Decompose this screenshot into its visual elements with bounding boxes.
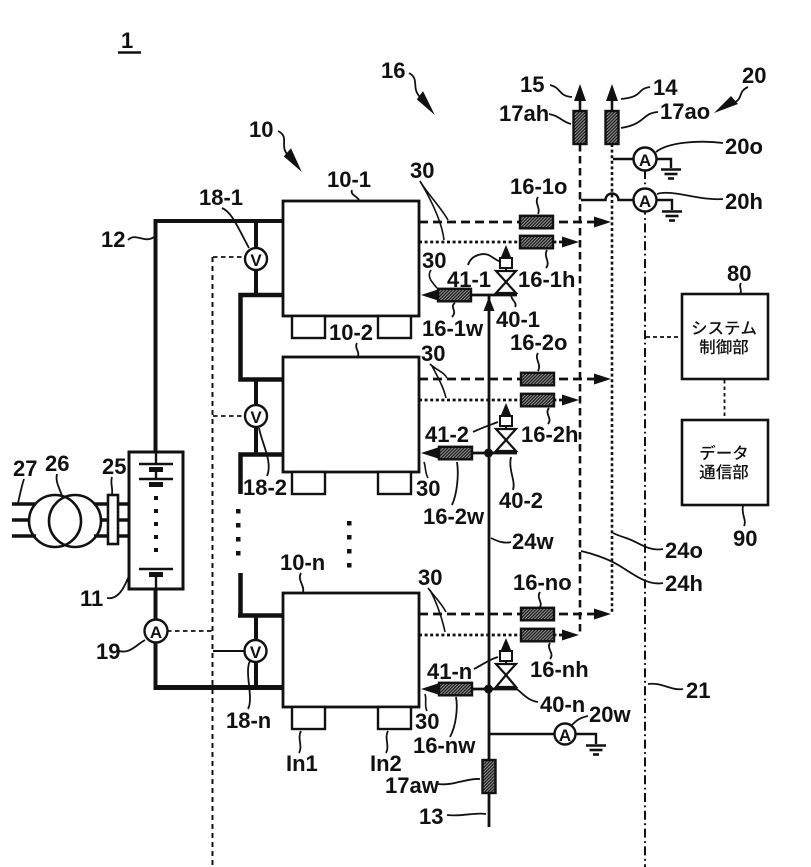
- wire bottom bus to stack n: [154, 685, 284, 690]
- wire transformer to terminal block 25: [94, 504, 108, 536]
- node junction 40-n on 24w: [484, 685, 493, 694]
- system controller box 80: [682, 294, 768, 379]
- svg-text:16-1w: 16-1w: [422, 316, 484, 341]
- svg-text:41-2: 41-2: [425, 422, 469, 447]
- sensor 30 on w-n line (16-nw): [439, 683, 472, 696]
- wire hydrogen line stack2 (16-2h branch): [419, 399, 565, 402]
- wire ammeter 20h tap with hop over 24o: [581, 194, 672, 211]
- wire ammeter 20o tap: [613, 159, 671, 168]
- component 17ah on hydrogen outlet: [574, 111, 587, 144]
- svg-text:30: 30: [415, 709, 439, 734]
- wire sense dashed 18-2: [213, 415, 245, 417]
- voltmeter 18-n: [245, 640, 267, 662]
- svg-text:14: 14: [653, 75, 678, 100]
- svg-text:19: 19: [96, 639, 120, 664]
- wire water line stack2 (16-2w branch): [426, 452, 517, 455]
- svg-text:20: 20: [742, 63, 766, 88]
- arrow h-n into 24h: [562, 630, 579, 641]
- svg-text:1: 1: [121, 28, 133, 53]
- wire sense line vertical (dashed, to controller): [212, 257, 214, 867]
- svg-text:10: 10: [249, 117, 273, 142]
- wire series link stack1 to stack2: [241, 295, 284, 380]
- ground for 20h: [662, 212, 682, 221]
- text system control box 80 line2: [700, 339, 748, 354]
- svg-text:In2: In2: [370, 751, 402, 776]
- svg-text:20o: 20o: [725, 134, 763, 159]
- wire oxygen line stack2 (16-2o branch): [419, 378, 597, 381]
- svg-text:A: A: [639, 192, 651, 211]
- svg-text:V: V: [250, 643, 262, 662]
- svg-text:17ao: 17ao: [660, 99, 710, 124]
- wire signal line 21 to system controller 80: [646, 336, 682, 338]
- wire oxygen header 24o: [611, 144, 614, 614]
- svg-text:10-n: 10-n: [280, 550, 325, 575]
- svg-text:30: 30: [410, 158, 434, 183]
- text system control box 80 line1: [693, 321, 756, 335]
- node continuation dots between stack2 and stack n (right): [347, 521, 352, 568]
- valve 40-1 with actuator 41-1: [496, 245, 516, 293]
- valve 40-2 with actuator 41-2: [496, 403, 516, 451]
- svg-text:10-2: 10-2: [329, 320, 373, 345]
- wire ammeter 20w tap: [489, 734, 596, 744]
- wire voltmeter 18-2 branch: [254, 380, 258, 453]
- terminal block 25: [108, 495, 118, 544]
- sensor 30 on o1 line (16-1o): [520, 216, 553, 229]
- arrow oxygen outlet 14: [606, 84, 618, 101]
- svg-text:26: 26: [45, 451, 69, 476]
- wire top bus 12: [155, 219, 283, 223]
- sensor 30 on h-n line (16-nh): [521, 629, 554, 642]
- svg-text:16-2w: 16-2w: [423, 504, 485, 529]
- svg-text:17ah: 17ah: [499, 101, 549, 126]
- wire signal line 21: [644, 170, 646, 867]
- electrolysis stack 10-n: [283, 593, 419, 707]
- node dots inside rectifier 11: [154, 496, 158, 552]
- electrolysis stack 10-1: [283, 201, 419, 316]
- terminal tab of 10-1 (right): [378, 316, 411, 338]
- svg-text:30: 30: [422, 248, 446, 273]
- svg-text:80: 80: [727, 261, 751, 286]
- terminal tab In2 of 10-n: [378, 707, 411, 729]
- wire sense dashed 18-1: [213, 256, 245, 258]
- text data comm box 90 line2: [700, 464, 749, 479]
- sensor 30 on h1 line (16-1h): [520, 236, 553, 249]
- ground for 20w: [586, 746, 606, 755]
- svg-text:16-2o: 16-2o: [510, 330, 567, 355]
- svg-text:13: 13: [419, 804, 443, 829]
- wire water header 24w: [488, 296, 491, 760]
- arrow water into stack2: [421, 448, 438, 459]
- svg-text:41-n: 41-n: [427, 659, 472, 684]
- arrow o1 into 24o: [594, 217, 611, 228]
- arrow o-n into 24o: [594, 609, 611, 620]
- terminal tab of 10-1 (left): [292, 316, 325, 338]
- wire water line stack1 (16-1w branch): [426, 294, 517, 297]
- svg-text:16-2h: 16-2h: [521, 422, 578, 447]
- svg-text:18-n: 18-n: [226, 708, 271, 733]
- wire voltmeter 18-1 branch: [254, 221, 258, 294]
- svg-text:18-1: 18-1: [199, 185, 243, 210]
- battery cell symbols inside 11: [139, 452, 173, 589]
- svg-text:40-1: 40-1: [496, 307, 540, 332]
- wire sense solid 18-n: [213, 650, 245, 652]
- terminal tab of 10-2 (left): [292, 472, 325, 494]
- svg-text:A: A: [559, 726, 571, 745]
- wire sense dashed ammeter 19: [167, 630, 212, 632]
- ammeter 20o: [634, 148, 657, 171]
- svg-text:A: A: [639, 151, 651, 170]
- svg-text:10-1: 10-1: [327, 167, 371, 192]
- wire series link stack2 down stub: [241, 455, 284, 495]
- voltmeter 18-1: [245, 248, 267, 270]
- svg-text:In1: In1: [286, 751, 318, 776]
- wire three-phase input lines 27: [12, 504, 36, 536]
- ammeter 19: [145, 620, 168, 643]
- svg-text:21: 21: [686, 678, 710, 703]
- wire rectifier 11 to ammeter 19 to bottom bus: [154, 589, 158, 686]
- svg-text:25: 25: [102, 454, 126, 479]
- svg-text:30: 30: [416, 476, 440, 501]
- svg-text:20h: 20h: [725, 189, 763, 214]
- svg-text:27: 27: [13, 456, 37, 481]
- arrow water into stack n: [421, 684, 438, 695]
- svg-text:41-1: 41-1: [447, 267, 491, 292]
- terminal tab of 10-2 (right): [378, 472, 411, 494]
- svg-text:16-no: 16-no: [513, 570, 572, 595]
- wire hydrogen header 24h: [579, 144, 582, 633]
- svg-text:V: V: [250, 251, 262, 270]
- ammeter 20w: [555, 724, 576, 746]
- rectifier box 11: [129, 452, 183, 589]
- arrow water into stack1: [421, 290, 438, 301]
- wire terminal block to rectifier 11: [118, 504, 129, 536]
- arrow h2 into 24h: [562, 395, 579, 406]
- node junction 40-2 on 24w: [484, 449, 493, 458]
- svg-text:16-nw: 16-nw: [413, 733, 476, 758]
- wire hydrogen line stack1 (16-1h branch): [419, 241, 565, 244]
- svg-text:18-2: 18-2: [243, 475, 287, 500]
- sensor 30 on o2 line (16-2o): [521, 373, 554, 386]
- wire link between 80 and 90: [724, 380, 726, 420]
- ground for 20o: [661, 170, 681, 179]
- node continuation dots between stack2 and stack n (left): [236, 509, 241, 556]
- component 17aw on water inlet 13: [483, 760, 496, 793]
- terminal tab In1 of 10-n: [292, 707, 325, 729]
- svg-text:16-1o: 16-1o: [510, 174, 567, 199]
- wire hydrogen line stack n (16-nh branch): [419, 634, 565, 637]
- arrow h1 into 24h: [562, 237, 579, 248]
- svg-text:24h: 24h: [665, 571, 703, 596]
- svg-text:V: V: [250, 408, 262, 427]
- svg-text:90: 90: [733, 526, 757, 551]
- svg-text:11: 11: [80, 586, 103, 611]
- wire water line stack n (16-nw branch): [426, 688, 517, 691]
- wire oxygen line stack n (16-no branch): [419, 613, 597, 616]
- svg-text:24o: 24o: [665, 538, 703, 563]
- wire oxygen line stack1 (16-1o branch): [419, 221, 597, 224]
- arrow o2 into 24o: [594, 374, 611, 385]
- svg-text:40-2: 40-2: [499, 488, 543, 513]
- electrolysis stack 10-2: [283, 357, 419, 472]
- arrow water header up at stack1 junction: [484, 297, 495, 311]
- wire left bus down to rectifier 11: [154, 219, 158, 452]
- wire voltmeter 18-n branch: [254, 614, 258, 686]
- svg-text:24w: 24w: [512, 529, 554, 554]
- component 17ao on oxygen outlet: [606, 111, 619, 144]
- valve 40-n with actuator 41-n: [496, 638, 516, 687]
- svg-text:40-n: 40-n: [540, 692, 585, 717]
- svg-text:16-nh: 16-nh: [530, 657, 589, 682]
- svg-text:30: 30: [421, 341, 445, 366]
- sensor 30 on h2 line (16-2h): [521, 394, 554, 407]
- svg-text:A: A: [150, 623, 162, 642]
- ammeter 20h: [634, 189, 657, 212]
- svg-text:20w: 20w: [589, 702, 631, 727]
- svg-text:30: 30: [418, 565, 442, 590]
- svg-text:12: 12: [101, 227, 125, 252]
- svg-text:16-1h: 16-1h: [518, 267, 575, 292]
- wire series link stub to stack n: [238, 573, 283, 616]
- voltmeter 18-2: [245, 405, 267, 427]
- arrow hydrogen outlet 15: [574, 84, 586, 101]
- svg-text:16: 16: [381, 58, 405, 83]
- sensor 30 on w2 line (16-2w): [439, 447, 472, 460]
- svg-text:15: 15: [520, 72, 544, 97]
- sensor 30 on w1 line (16-1w): [438, 289, 471, 302]
- svg-text:17aw: 17aw: [385, 773, 440, 798]
- text data comm box 90 line1: [701, 445, 747, 460]
- transformer 26: [29, 495, 81, 547]
- data communication box 90: [682, 420, 768, 505]
- sensor 30 on o-n line (16-no): [521, 608, 554, 621]
